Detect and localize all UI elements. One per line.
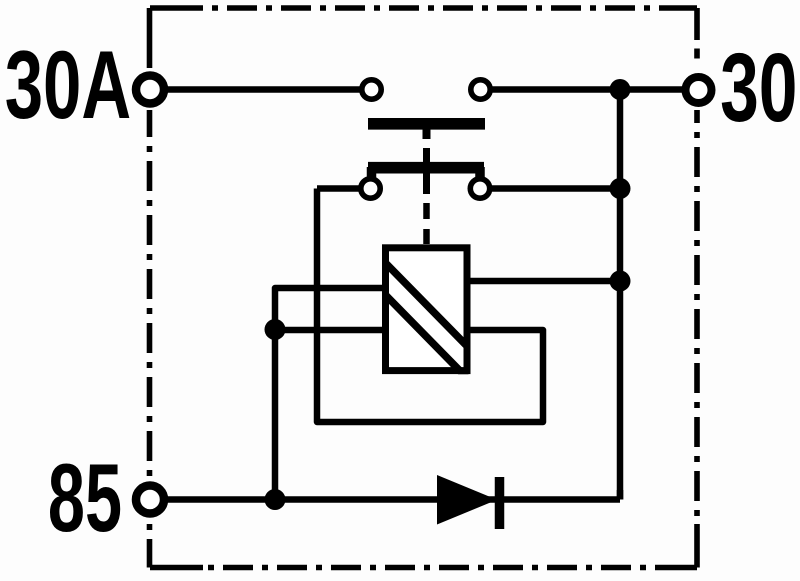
wire: left vertical down, bottom loop, up to coil right-lower terminal bbox=[317, 189, 543, 423]
fixed contact circle (lower right) bbox=[470, 179, 489, 198]
movable bridge contact bar (upper) bbox=[368, 118, 485, 130]
bar-to-contact flare (left) bbox=[367, 167, 377, 179]
svg-text:85: 85 bbox=[48, 444, 122, 552]
terminal 30A (circle on housing) bbox=[136, 76, 164, 104]
junction dot (coil left wires) bbox=[265, 319, 286, 340]
wire: right vertical bus bbox=[617, 90, 624, 500]
svg-text:30A: 30A bbox=[5, 30, 131, 138]
terminal 85 (circle on housing) bbox=[136, 486, 164, 514]
terminal 30 (circle on housing) bbox=[686, 77, 712, 103]
relay coil K1 (box with diagonal stripe) bbox=[380, 248, 474, 385]
junction dot (85 rail / coil branch) bbox=[265, 489, 286, 510]
wire: junction to coil left-lower terminal bbox=[275, 327, 386, 334]
wire: coil right-upper terminal to right vertical bbox=[466, 278, 620, 285]
wire: terminal 30A to top-left fixed contact bbox=[150, 86, 362, 93]
actuator nub below upper bar bbox=[423, 126, 431, 139]
wire: 85 bottom rail bbox=[150, 496, 620, 503]
actuator dashed link to coil bbox=[423, 203, 430, 244]
wire: coil left-upper terminal left then down to 85 rail bbox=[275, 288, 386, 500]
junction dot (coil right-upper wire / right bus) bbox=[610, 271, 631, 292]
movable bridge contact bar (lower) bbox=[368, 162, 484, 174]
junction dot (top rail / right bus) bbox=[610, 79, 631, 100]
junction dot (lower contact rail / right bus) bbox=[610, 178, 631, 199]
svg-text:30: 30 bbox=[720, 34, 797, 142]
actuator tick through lower bar bbox=[423, 148, 430, 194]
wire: top-right fixed contact to terminal 30 bbox=[489, 86, 699, 93]
fixed contact circle (top right) bbox=[471, 80, 490, 99]
wire: lower-left fixed contact to left vertical corner bbox=[317, 185, 362, 192]
fixed contact circle (lower left) bbox=[361, 179, 380, 198]
bar-to-contact flare (right) bbox=[475, 167, 485, 179]
relay housing outline (dash-dot enclosure) bbox=[150, 8, 698, 568]
fixed contact circle (top left) bbox=[362, 80, 381, 99]
wire: lower-right fixed contact to right vertical bbox=[489, 185, 620, 192]
diode V1 (anode left, cathode bar right) bbox=[437, 475, 500, 529]
